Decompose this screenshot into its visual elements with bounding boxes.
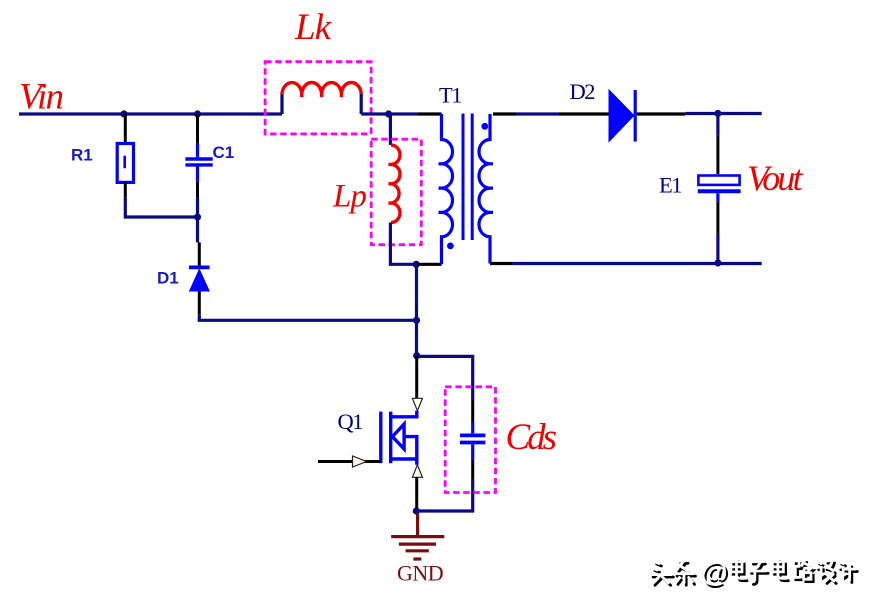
capacitor Cds bottom lead black: [471, 460, 474, 479]
capacitor E1 top lead navy: [716, 114, 719, 136]
wire C1 to junction: [196, 198, 199, 243]
transistor Q1 channel bar: [389, 412, 392, 464]
wire secondary bottom black: [490, 262, 513, 265]
diode D2 triangle: [609, 90, 634, 142]
inductor Lp red coil: [388, 145, 400, 223]
wire to Cds top: [417, 356, 473, 400]
resistor R1 inner mark: [123, 156, 126, 169]
diode D1 cathode bar: [189, 265, 210, 269]
arrow gate: [353, 456, 367, 467]
wire output bottom navy: [513, 262, 762, 265]
svg-text:D2: D2: [570, 79, 596, 104]
capacitor E1 top plate: [698, 176, 739, 185]
node junction R1 top: [120, 110, 127, 117]
wire Lp top lead: [389, 114, 392, 145]
svg-text:@: @: [701, 556, 728, 587]
wire D1 to Q1 drain: [199, 315, 416, 321]
svg-text:Vin: Vin: [19, 77, 63, 118]
svg-text:GND: GND: [397, 561, 443, 586]
ground bar 2: [399, 542, 436, 545]
node junction R1 C1: [194, 213, 201, 220]
wire secondary top navy: [516, 112, 559, 115]
svg-text:E1: E1: [659, 173, 681, 198]
capacitor C1 plates: [185, 157, 212, 160]
transformer T1 core line 1: [462, 114, 465, 241]
wire black segment to T1 primary: [418, 112, 442, 115]
arrow drain: [412, 398, 422, 411]
transistor Q1 source lead: [391, 459, 417, 465]
transistor Q1: [381, 411, 417, 465]
ground bar 4: [413, 557, 421, 560]
node junction source gnd: [413, 507, 420, 514]
svg-text:T1: T1: [439, 83, 461, 108]
svg-text:C1: C1: [213, 143, 235, 162]
watermark 头条 @电子电路设计: [651, 556, 857, 589]
transistor Q1 body arrow: [392, 424, 404, 449]
arrow source: [412, 465, 422, 478]
capacitor Cds top stub: [471, 422, 474, 433]
dashed box Lk: [265, 62, 371, 134]
capacitor C1 top lead: [196, 114, 199, 143]
ground bar 3: [406, 549, 429, 552]
transformer T1 primary polarity dot: [447, 243, 454, 250]
ground GND stub: [416, 513, 419, 536]
capacitor E1 bottom lead navy: [716, 233, 719, 263]
wire drain vertical: [415, 264, 418, 355]
wire E1 to end: [685, 112, 761, 115]
svg-text:Cds: Cds: [506, 417, 557, 458]
svg-text:R1: R1: [71, 146, 93, 165]
resistor R1 body: [117, 144, 133, 183]
capacitor Cds bottom stub: [471, 444, 474, 460]
wire Lp bottom lead: [390, 223, 416, 265]
svg-text:Q1: Q1: [338, 409, 363, 434]
capacitor E1 bottom plate: [698, 189, 741, 193]
capacitor C1 bottom lead: [196, 182, 199, 198]
wire Lk to T1: [361, 112, 418, 115]
node junction E1 bottom: [714, 259, 721, 266]
transformer T1 core line 2: [471, 114, 474, 241]
wire D2 to E1 black: [637, 112, 686, 115]
node junction E1 top: [714, 110, 721, 117]
wire black drain: [415, 356, 418, 399]
dashed box Cds: [445, 387, 495, 493]
wire to D2 black: [559, 112, 609, 115]
transistor Q1 body lead: [404, 437, 417, 459]
transformer T1 primary winding: [439, 114, 453, 264]
wire gate lead: [318, 460, 381, 463]
inductor Lk right lead: [360, 94, 363, 114]
node junction Cds top: [413, 352, 420, 359]
node junction D1 wire: [413, 317, 420, 324]
inductor Lk left lead: [280, 94, 283, 114]
wire Cds bottom: [417, 479, 473, 511]
diode D2 cathode bar: [634, 90, 637, 142]
capacitor E1 bottom stub: [716, 193, 719, 202]
transistor Q1 drain lead: [391, 411, 417, 417]
wire source bottom: [415, 477, 418, 511]
svg-text:D1: D1: [157, 269, 179, 288]
dashed box Lp: [371, 139, 421, 245]
transistor Q1 gate bar: [379, 412, 382, 464]
capacitor E1 bottom lead black: [716, 202, 719, 233]
capacitor Cds plates: [460, 433, 485, 437]
node junction Lp top: [385, 110, 392, 117]
capacitor E1 top lead black: [716, 136, 719, 174]
transformer T1 secondary winding: [479, 114, 493, 264]
diode D1 top lead: [198, 242, 201, 265]
capacitor C1 top stub: [196, 143, 199, 157]
capacitor C1 bottom stub: [196, 166, 199, 182]
svg-text:Vout: Vout: [747, 158, 804, 198]
node junction C1 top: [194, 110, 201, 117]
svg-text:Lp: Lp: [332, 179, 366, 215]
inductor Lk red coil: [282, 82, 361, 97]
svg-text:Lk: Lk: [294, 7, 332, 48]
resistor R1 leads: [124, 114, 127, 144]
wire secondary top black: [493, 112, 516, 115]
node junction drain top: [413, 261, 420, 268]
wire Vin top rail: [19, 112, 282, 115]
transformer T1 secondary polarity dot: [481, 123, 488, 130]
wire R1 bottom: [124, 182, 127, 197]
ground bar 1: [391, 535, 444, 538]
diode D1 triangle: [190, 270, 210, 292]
diode D1 bottom lead: [198, 291, 201, 315]
wire black to primary bottom: [416, 263, 441, 266]
wire R1 to C1 junction: [125, 198, 197, 217]
capacitor Cds top lead black: [471, 400, 474, 422]
